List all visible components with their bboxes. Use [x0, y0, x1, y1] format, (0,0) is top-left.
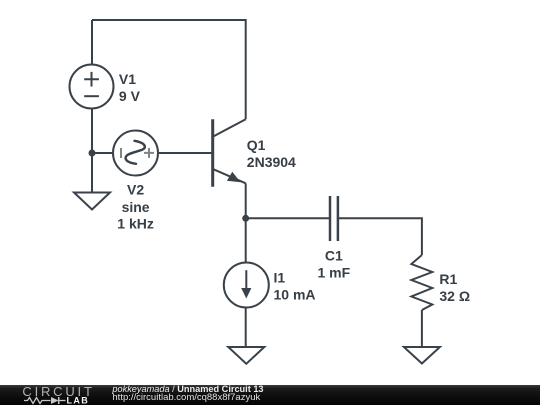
wire R1 bottom to ground: [421, 310, 423, 347]
node A junction dot: [89, 150, 96, 157]
CircuitLab logo: [0, 385, 100, 405]
svg-text:32 Ω: 32 Ω: [439, 288, 470, 304]
capacitor C1: [330, 196, 338, 241]
wire V1 top: [91, 20, 93, 65]
wire C1 right plate to R1 top: [338, 218, 422, 255]
current source I1: [224, 263, 269, 308]
svg-text:10 mA: 10 mA: [274, 286, 316, 302]
wire I1 bottom to ground: [245, 308, 247, 348]
svg-text:1 mF: 1 mF: [317, 265, 350, 281]
label I1 10 mA: [274, 270, 316, 303]
footer bar: [0, 385, 540, 405]
svg-text:sine: sine: [122, 199, 150, 215]
svg-text:C1: C1: [325, 248, 343, 264]
wire V2 right to Q1 base: [158, 152, 212, 154]
wire node B to C1 left plate: [246, 217, 330, 219]
svg-text:LAB: LAB: [67, 395, 90, 405]
svg-text:R1: R1: [439, 271, 457, 287]
resistor R1: [411, 255, 432, 310]
wire Q1 emitter to node B: [245, 183, 247, 218]
wire V1 bottom to ground through node A: [91, 109, 93, 193]
voltage source V1: [70, 65, 114, 109]
sine voltage source V2: [113, 131, 158, 176]
svg-text:V1: V1: [119, 71, 136, 87]
svg-text:V2: V2: [127, 181, 144, 197]
svg-text:I1: I1: [274, 270, 286, 286]
footer credit text: [112, 385, 263, 402]
svg-text:1 kHz: 1 kHz: [117, 215, 154, 231]
svg-text:2N3904: 2N3904: [247, 154, 296, 170]
label V2 sine 1 kHz: [117, 181, 154, 231]
node B junction dot: [242, 215, 249, 222]
label C1 1 mF: [317, 248, 350, 281]
ground (node A): [74, 193, 110, 210]
wire node B to I1 top: [245, 218, 247, 262]
ground (below I1): [228, 347, 264, 364]
label R1 32 ohm: [439, 271, 470, 304]
ground (below R1): [404, 347, 440, 364]
svg-text:9 V: 9 V: [119, 88, 141, 104]
wire top rail V1 to Q1 collector: [92, 20, 246, 119]
transistor Q1 (NPN): [213, 119, 246, 186]
wire node A to V2 left: [92, 152, 114, 154]
svg-text:Q1: Q1: [247, 137, 266, 153]
label Q1 2N3904: [247, 137, 296, 170]
label V1 9 V: [119, 71, 141, 104]
